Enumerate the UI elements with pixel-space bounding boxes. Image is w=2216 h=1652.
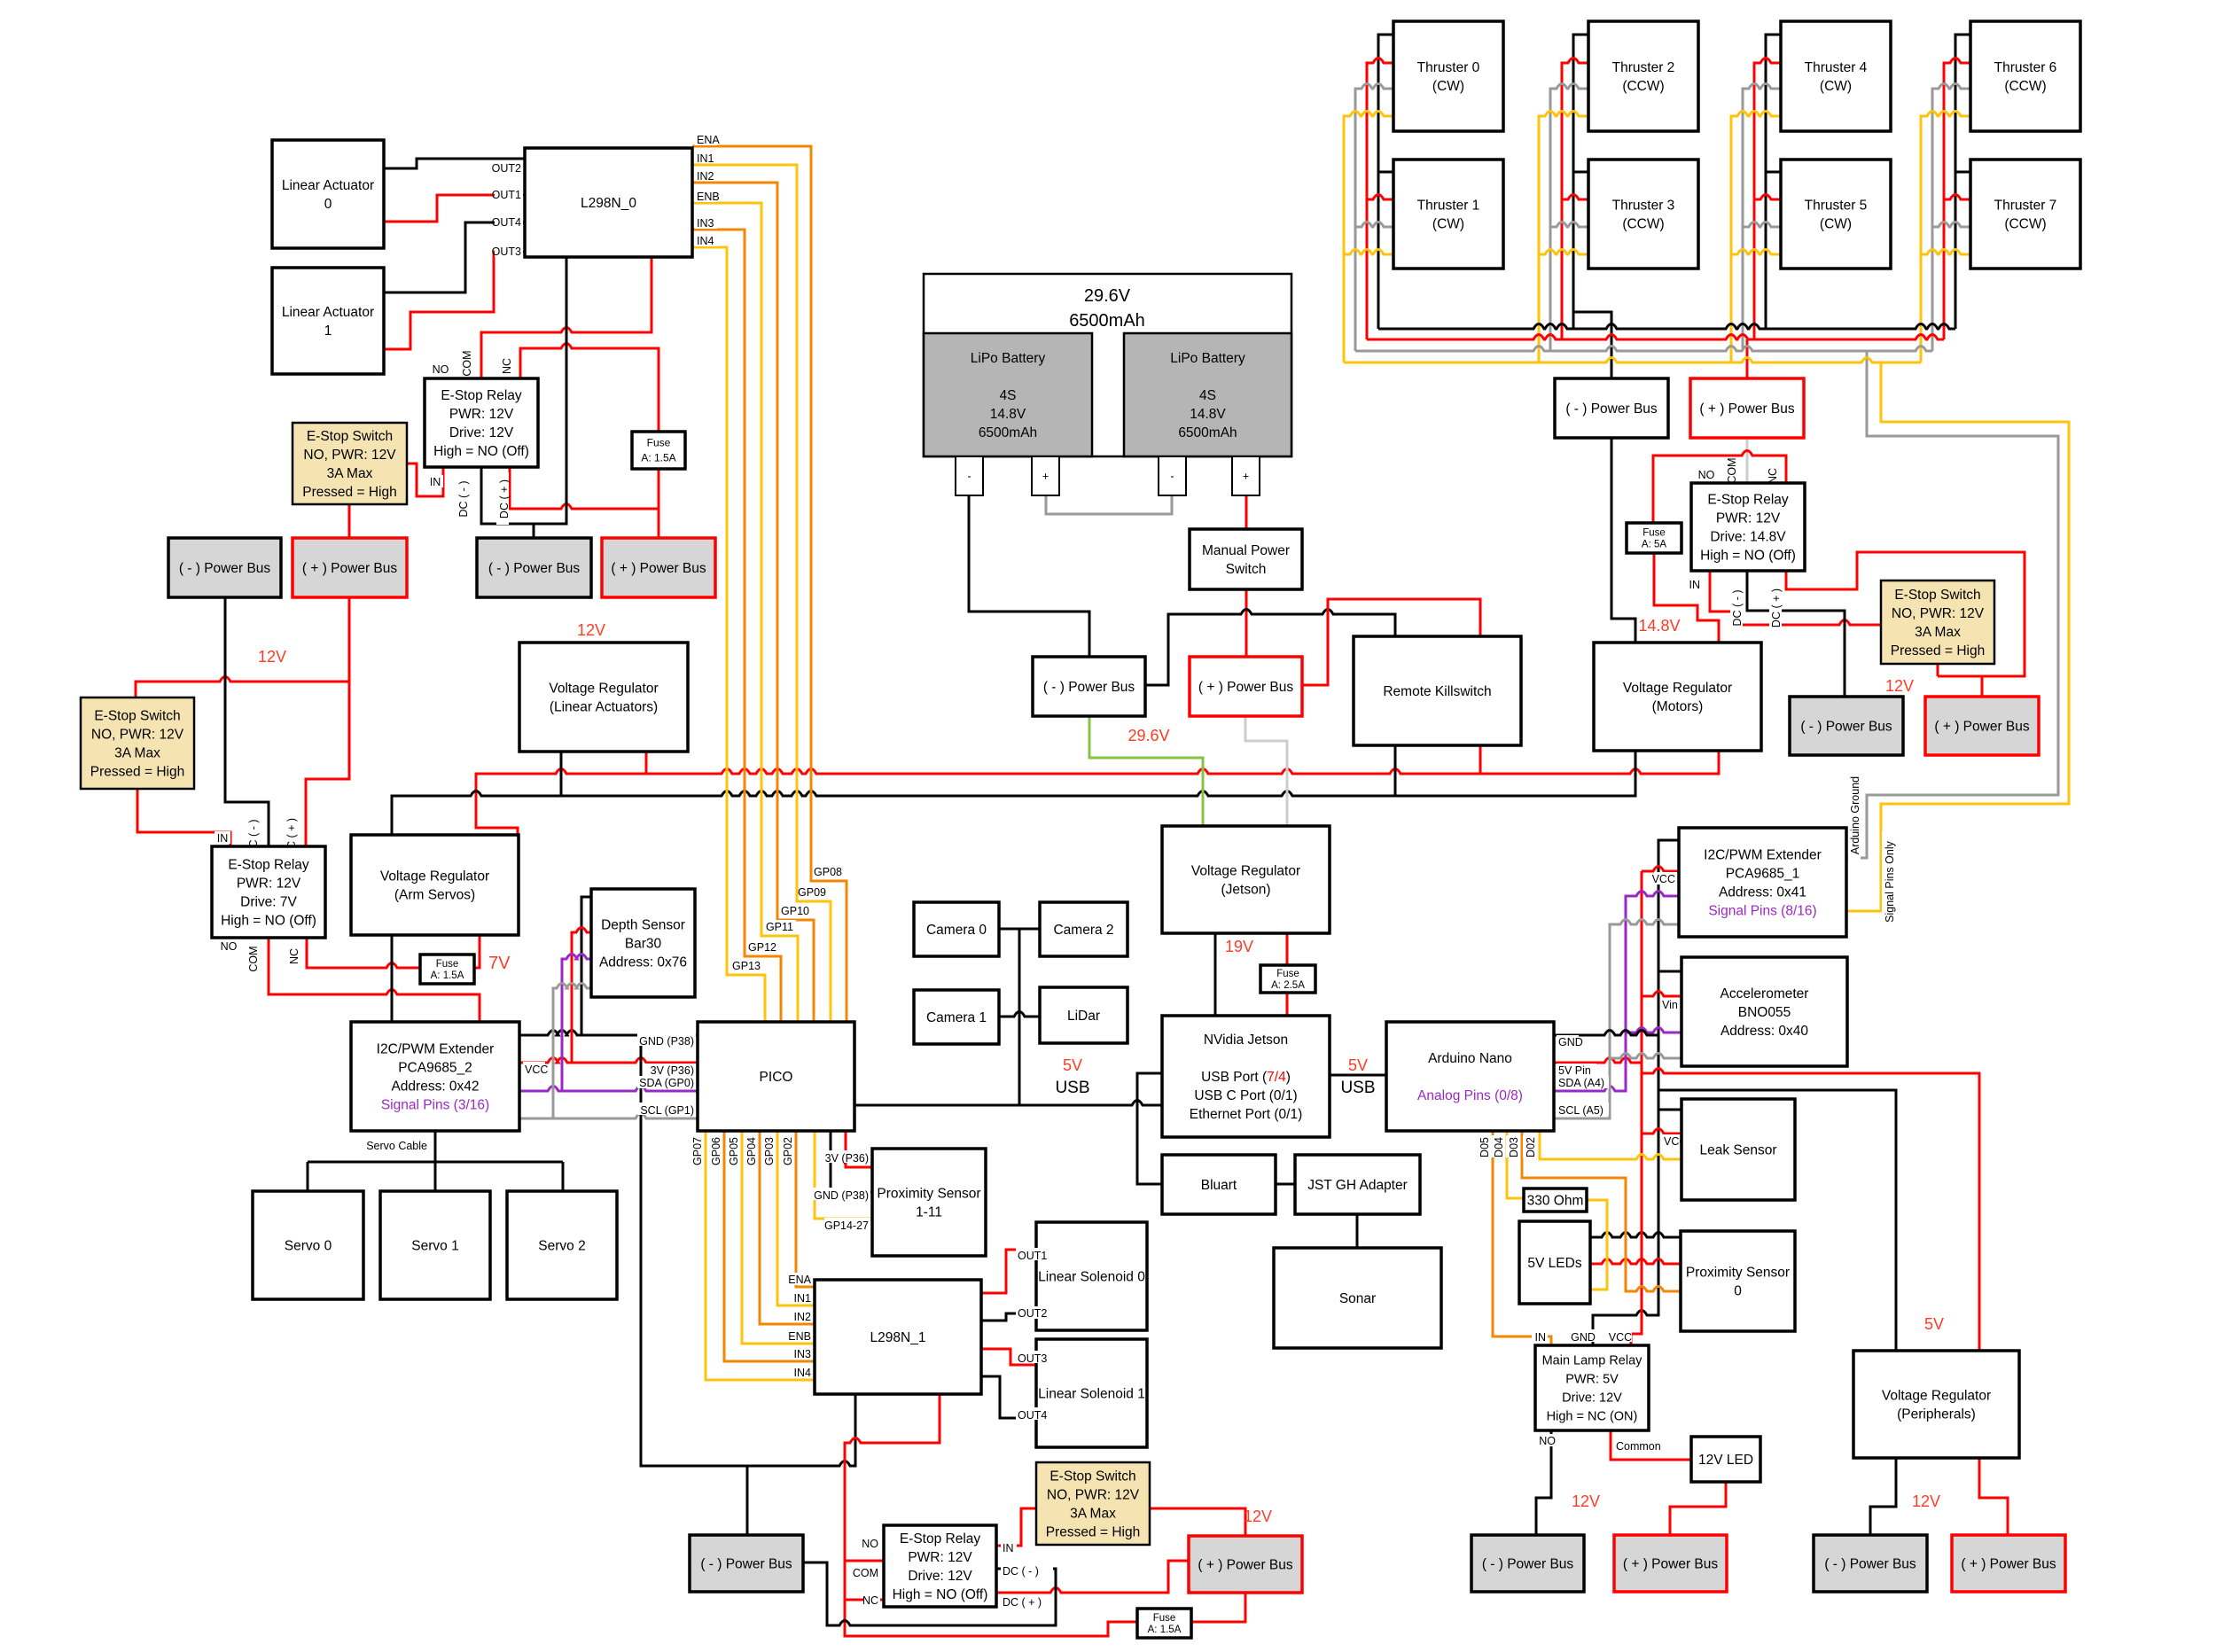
svg-text:Proximity Sensor: Proximity Sensor [1686, 1265, 1790, 1280]
svg-text:Drive: 12V: Drive: 12V [1562, 1391, 1622, 1406]
svg-text:PWR: 12V: PWR: 12V [237, 876, 301, 891]
svg-text:7V: 7V [488, 954, 511, 973]
svg-text:Thruster 7: Thruster 7 [1994, 198, 2057, 213]
svg-text:DC ( - ): DC ( - ) [457, 481, 470, 518]
svg-text:(Motors): (Motors) [1652, 699, 1704, 714]
svg-text:IN4: IN4 [794, 1367, 812, 1379]
svg-text:3V (P36): 3V (P36) [825, 1152, 869, 1165]
svg-text:GP13: GP13 [732, 960, 761, 972]
svg-text:Voltage Regulator: Voltage Regulator [1882, 1388, 1991, 1403]
svg-text:5V: 5V [1348, 1056, 1368, 1074]
svg-text:Sonar: Sonar [1339, 1291, 1376, 1306]
svg-text:IN1: IN1 [697, 152, 714, 165]
svg-text:OUT3: OUT3 [1018, 1352, 1047, 1365]
svg-text:OUT4: OUT4 [1018, 1409, 1047, 1422]
svg-text:E-Stop Relay: E-Stop Relay [441, 388, 522, 403]
svg-text:A: 5A: A: 5A [1642, 540, 1666, 550]
svg-text:Fuse: Fuse [436, 959, 459, 970]
svg-text:Pressed = High: Pressed = High [302, 485, 396, 500]
svg-text:GP14-27: GP14-27 [824, 1220, 869, 1232]
svg-text:Voltage Regulator: Voltage Regulator [1191, 863, 1300, 878]
svg-text:Drive: 7V: Drive: 7V [240, 894, 297, 909]
svg-text:Signal Pins (8/16): Signal Pins (8/16) [1708, 903, 1816, 918]
svg-text:Fuse: Fuse [1153, 1613, 1176, 1624]
svg-text:NO: NO [1539, 1435, 1556, 1447]
svg-text:(CCW): (CCW) [1622, 79, 1664, 94]
svg-text:( - ) Power Bus: ( - ) Power Bus [1824, 1556, 1916, 1571]
svg-text:( - ) Power Bus: ( - ) Power Bus [700, 1556, 792, 1571]
svg-text:GP03: GP03 [763, 1137, 776, 1165]
svg-text:NO: NO [433, 363, 449, 376]
svg-text:NO, PWR: 12V: NO, PWR: 12V [1892, 606, 1985, 621]
svg-text:( - ) Power Bus: ( - ) Power Bus [1565, 401, 1658, 417]
svg-text:DC ( + ): DC ( + ) [498, 479, 511, 518]
svg-text:+: + [1243, 470, 1249, 482]
svg-text:Address: 0x76: Address: 0x76 [599, 955, 687, 970]
svg-text:12V: 12V [258, 648, 286, 666]
svg-text:Voltage Regulator: Voltage Regulator [549, 681, 658, 696]
svg-text:IN1: IN1 [794, 1292, 812, 1305]
svg-text:PWR: 12V: PWR: 12V [908, 1550, 972, 1565]
svg-text:Thruster 0: Thruster 0 [1417, 60, 1480, 75]
svg-text:Vin: Vin [1662, 999, 1678, 1011]
svg-text:COM: COM [1726, 457, 1738, 483]
svg-text:USB: USB [1055, 1079, 1089, 1097]
svg-text:PICO: PICO [760, 1070, 793, 1085]
svg-text:PCA9685_2: PCA9685_2 [398, 1060, 472, 1075]
svg-text:(Arm Servos): (Arm Servos) [394, 887, 475, 902]
svg-text:Servo 1: Servo 1 [411, 1238, 458, 1253]
svg-text:SDA (GP0): SDA (GP0) [639, 1077, 694, 1089]
svg-text:High = NC (ON): High = NC (ON) [1547, 1410, 1638, 1424]
svg-text:( - ) Power Bus: ( - ) Power Bus [488, 561, 581, 576]
svg-text:JST GH Adapter: JST GH Adapter [1307, 1178, 1408, 1193]
svg-text:GP10: GP10 [781, 905, 809, 917]
svg-text:A: 1.5A: A: 1.5A [1148, 1625, 1182, 1635]
svg-text:Fuse: Fuse [647, 437, 671, 449]
svg-text:Servo 0: Servo 0 [285, 1238, 332, 1253]
svg-text:GP08: GP08 [814, 866, 842, 878]
svg-text:Pressed = High: Pressed = High [1046, 1524, 1140, 1539]
svg-text:SDA (A4): SDA (A4) [1558, 1077, 1604, 1089]
svg-text:E-Stop Switch: E-Stop Switch [1894, 588, 1980, 603]
svg-text:29.6V: 29.6V [1084, 286, 1131, 306]
svg-text:NO, PWR: 12V: NO, PWR: 12V [91, 727, 184, 742]
svg-text:IN2: IN2 [697, 170, 714, 183]
svg-text:Leak Sensor: Leak Sensor [1699, 1142, 1776, 1157]
svg-text:(CW): (CW) [1820, 216, 1852, 231]
svg-text:(CCW): (CCW) [2004, 79, 2046, 94]
svg-text:14.8V: 14.8V [1190, 407, 1226, 422]
svg-text:Arduino Ground: Arduino Ground [1849, 776, 1861, 854]
svg-text:1-11: 1-11 [916, 1204, 942, 1220]
svg-text:LiPo Battery: LiPo Battery [971, 351, 1046, 366]
svg-text:0: 0 [324, 197, 332, 212]
svg-text:NC: NC [862, 1594, 878, 1607]
svg-text:Linear Solenoid 1: Linear Solenoid 1 [1038, 1386, 1145, 1401]
svg-text:Drive: 12V: Drive: 12V [449, 425, 514, 440]
svg-text:OUT4: OUT4 [492, 216, 521, 229]
svg-text:( + ) Power Bus: ( + ) Power Bus [1961, 1556, 2056, 1571]
svg-text:Address: 0x41: Address: 0x41 [1719, 884, 1806, 900]
svg-text:Switch: Switch [1226, 562, 1267, 577]
svg-text:Proximity Sensor: Proximity Sensor [877, 1186, 980, 1201]
svg-text:E-Stop Relay: E-Stop Relay [1707, 492, 1789, 507]
svg-text:Camera 1: Camera 1 [926, 1010, 987, 1025]
svg-text:Arduino Nano: Arduino Nano [1428, 1051, 1512, 1066]
svg-text:LiPo Battery: LiPo Battery [1170, 351, 1245, 366]
svg-text:19V: 19V [1225, 938, 1253, 955]
svg-text:E-Stop Switch: E-Stop Switch [94, 708, 180, 723]
svg-text:ENB: ENB [788, 1330, 811, 1343]
svg-text:PWR: 12V: PWR: 12V [449, 407, 514, 422]
svg-text:VCC: VCC [525, 1064, 548, 1076]
svg-text:(CW): (CW) [1432, 79, 1464, 94]
svg-text:Drive: 12V: Drive: 12V [908, 1569, 972, 1584]
svg-text:SCL (GP1): SCL (GP1) [640, 1104, 694, 1117]
svg-text:( + ) Power Bus: ( + ) Power Bus [1198, 680, 1293, 695]
svg-text:NC: NC [288, 948, 300, 964]
svg-text:( - ) Power Bus: ( - ) Power Bus [1482, 1556, 1574, 1571]
svg-text:14.8V: 14.8V [1638, 617, 1680, 635]
svg-text:VCC: VCC [1652, 873, 1675, 885]
svg-text:Bluart: Bluart [1201, 1178, 1237, 1193]
svg-text:3V (P36): 3V (P36) [651, 1064, 694, 1077]
svg-text:4S: 4S [1199, 388, 1216, 403]
svg-text:IN3: IN3 [697, 217, 714, 230]
svg-text:IN: IN [1689, 579, 1701, 591]
svg-text:3A Max: 3A Max [1070, 1506, 1116, 1521]
svg-text:PWR: 12V: PWR: 12V [1716, 510, 1781, 526]
svg-text:NO: NO [221, 940, 238, 953]
svg-text:GP04: GP04 [745, 1137, 758, 1165]
svg-text:Camera 2: Camera 2 [1053, 923, 1113, 938]
svg-text:PCA9685_1: PCA9685_1 [1726, 866, 1800, 881]
svg-text:Drive: 14.8V: Drive: 14.8V [1710, 529, 1786, 544]
svg-text:ENB: ENB [697, 191, 720, 203]
svg-text:12V: 12V [1912, 1492, 1940, 1510]
svg-text:L298N_0: L298N_0 [581, 196, 636, 211]
svg-text:(Peripherals): (Peripherals) [1897, 1407, 1976, 1422]
svg-text:ENA: ENA [697, 134, 720, 146]
svg-text:(Jetson): (Jetson) [1221, 882, 1271, 897]
svg-text:COM: COM [853, 1567, 878, 1579]
svg-text:Address: 0x40: Address: 0x40 [1721, 1024, 1808, 1039]
svg-text:0: 0 [1734, 1283, 1742, 1298]
svg-text:330 Ohm: 330 Ohm [1527, 1193, 1584, 1208]
svg-text:5V: 5V [1063, 1056, 1082, 1074]
svg-text:IN: IN [1535, 1331, 1547, 1344]
svg-text:Pressed = High: Pressed = High [90, 764, 184, 779]
svg-text:-: - [1170, 470, 1174, 482]
svg-text:USB C Port (0/1): USB C Port (0/1) [1194, 1088, 1297, 1103]
svg-text:6500mAh: 6500mAh [979, 425, 1037, 440]
svg-text:GP02: GP02 [782, 1137, 794, 1165]
svg-text:D02: D02 [1525, 1137, 1537, 1157]
svg-text:Thruster 2: Thruster 2 [1612, 60, 1675, 75]
svg-text:Linear Actuator: Linear Actuator [282, 178, 374, 193]
svg-text:( - ) Power Bus: ( - ) Power Bus [179, 561, 271, 576]
svg-text:GP09: GP09 [798, 886, 826, 899]
svg-text:NVidia Jetson: NVidia Jetson [1204, 1032, 1288, 1048]
svg-text:Common: Common [1616, 1440, 1661, 1453]
svg-text:OUT2: OUT2 [1018, 1307, 1047, 1320]
svg-text:GP11: GP11 [766, 921, 793, 933]
svg-text:LiDar: LiDar [1067, 1009, 1100, 1024]
svg-text:3A Max: 3A Max [1915, 625, 1961, 640]
svg-text:12V: 12V [1244, 1508, 1272, 1525]
svg-text:A: 2.5A: A: 2.5A [1271, 980, 1305, 991]
svg-text:Pressed = High: Pressed = High [1891, 643, 1985, 658]
svg-text:DC ( + ): DC ( + ) [1770, 588, 1783, 627]
svg-text:12V: 12V [577, 621, 605, 639]
svg-text:D03: D03 [1508, 1137, 1520, 1157]
svg-text:GND (P38): GND (P38) [639, 1035, 694, 1048]
svg-text:E-Stop Relay: E-Stop Relay [228, 857, 309, 872]
svg-text:( - ) Power Bus: ( - ) Power Bus [1043, 680, 1135, 695]
svg-text:Servo Cable: Servo Cable [366, 1140, 427, 1152]
svg-text:Accelerometer: Accelerometer [1721, 986, 1809, 1001]
svg-text:6500mAh: 6500mAh [1178, 425, 1237, 440]
svg-text:Analog Pins (0/8): Analog Pins (0/8) [1417, 1088, 1523, 1103]
svg-text:IN: IN [1003, 1542, 1014, 1555]
svg-text:Bar30: Bar30 [625, 936, 662, 951]
svg-text:NO: NO [862, 1538, 878, 1550]
svg-text:Manual Power: Manual Power [1202, 543, 1290, 558]
svg-text:Thruster 3: Thruster 3 [1612, 198, 1675, 213]
svg-text:3A Max: 3A Max [114, 745, 160, 760]
svg-text:DC ( - ): DC ( - ) [1003, 1565, 1039, 1578]
svg-text:A: 1.5A: A: 1.5A [431, 970, 464, 981]
svg-text:Linear Solenoid 0: Linear Solenoid 0 [1038, 1269, 1145, 1284]
svg-text:( - ) Power Bus: ( - ) Power Bus [1800, 719, 1892, 734]
svg-text:OUT2: OUT2 [492, 162, 521, 175]
svg-text:GP06: GP06 [710, 1137, 722, 1165]
svg-text:I2C/PWM Extender: I2C/PWM Extender [377, 1041, 495, 1056]
svg-text:5V Pin: 5V Pin [1558, 1064, 1591, 1077]
svg-text:12V: 12V [1572, 1492, 1600, 1510]
svg-text:IN2: IN2 [794, 1311, 812, 1323]
svg-text:Remote Killswitch: Remote Killswitch [1383, 684, 1491, 699]
svg-text:L298N_1: L298N_1 [870, 1330, 926, 1345]
svg-text:Signal Pins Only: Signal Pins Only [1884, 840, 1896, 922]
svg-text:E-Stop Switch: E-Stop Switch [1049, 1469, 1135, 1484]
svg-text:Voltage Regulator: Voltage Regulator [380, 869, 489, 884]
svg-text:ENA: ENA [788, 1274, 811, 1286]
svg-text:USB: USB [1340, 1079, 1375, 1097]
svg-text:USB Port (7/4): USB Port (7/4) [1201, 1070, 1291, 1085]
svg-text:High = NO (Off): High = NO (Off) [221, 913, 316, 928]
svg-text:Linear Actuator: Linear Actuator [282, 305, 374, 320]
svg-text:E-Stop Relay: E-Stop Relay [900, 1531, 981, 1547]
svg-text:Fuse: Fuse [1642, 528, 1666, 539]
svg-text:(CW): (CW) [1432, 216, 1464, 231]
svg-text:(CCW): (CCW) [2004, 216, 2046, 231]
svg-text:GND: GND [1558, 1036, 1583, 1048]
svg-text:NO: NO [1698, 469, 1715, 481]
svg-text:Address: 0x42: Address: 0x42 [391, 1079, 479, 1094]
svg-text:OUT1: OUT1 [492, 189, 521, 201]
svg-text:IN3: IN3 [794, 1348, 812, 1360]
svg-text:Thruster 6: Thruster 6 [1994, 60, 2057, 75]
svg-text:( + ) Power Bus: ( + ) Power Bus [302, 561, 397, 576]
svg-text:Thruster 4: Thruster 4 [1805, 60, 1868, 75]
svg-text:GP07: GP07 [691, 1137, 704, 1165]
svg-text:DC ( + ): DC ( + ) [1003, 1596, 1042, 1609]
svg-text:Servo 2: Servo 2 [538, 1238, 585, 1253]
svg-text:NO, PWR: 12V: NO, PWR: 12V [303, 448, 396, 463]
svg-text:Signal Pins (3/16): Signal Pins (3/16) [381, 1097, 489, 1112]
svg-text:( + ) Power Bus: ( + ) Power Bus [1198, 1557, 1292, 1572]
svg-text:5V LEDs: 5V LEDs [1527, 1256, 1581, 1271]
svg-text:PWR: 5V: PWR: 5V [1565, 1373, 1619, 1387]
svg-text:GP12: GP12 [748, 941, 776, 954]
svg-text:OUT3: OUT3 [492, 245, 521, 258]
svg-text:( + ) Power Bus: ( + ) Power Bus [611, 561, 706, 576]
svg-text:IN4: IN4 [697, 235, 714, 247]
svg-text:D05: D05 [1479, 1137, 1491, 1157]
svg-text:Camera 0: Camera 0 [926, 923, 987, 938]
svg-text:A: 1.5A: A: 1.5A [641, 452, 675, 464]
svg-text:COM: COM [247, 946, 260, 971]
svg-text:(Linear Actuators): (Linear Actuators) [550, 699, 658, 714]
svg-text:1: 1 [324, 323, 332, 339]
svg-text:GND: GND [1571, 1331, 1596, 1344]
svg-text:5V: 5V [1924, 1315, 1944, 1333]
svg-text:BNO055: BNO055 [1738, 1005, 1791, 1020]
svg-text:Fuse: Fuse [1276, 969, 1299, 979]
svg-text:High = NO (Off): High = NO (Off) [433, 444, 529, 459]
svg-text:Thruster 5: Thruster 5 [1805, 198, 1868, 213]
svg-text:E-Stop Switch: E-Stop Switch [307, 429, 393, 444]
svg-text:COM: COM [461, 350, 473, 376]
svg-text:Voltage Regulator: Voltage Regulator [1623, 681, 1732, 696]
svg-text:Main Lamp Relay: Main Lamp Relay [1542, 1354, 1643, 1368]
svg-text:High = NO (Off): High = NO (Off) [1700, 548, 1796, 563]
svg-text:GND (P38): GND (P38) [814, 1189, 869, 1202]
svg-text:I2C/PWM Extender: I2C/PWM Extender [1704, 847, 1822, 862]
svg-text:DC ( - ): DC ( - ) [1731, 590, 1744, 627]
svg-text:( + ) Power Bus: ( + ) Power Bus [1699, 401, 1794, 417]
svg-text:Ethernet Port (0/1): Ethernet Port (0/1) [1190, 1107, 1303, 1122]
svg-text:Thruster 1: Thruster 1 [1417, 198, 1480, 213]
svg-text:12V LED: 12V LED [1698, 1453, 1753, 1468]
svg-text:+: + [1042, 470, 1049, 482]
svg-text:GP05: GP05 [728, 1137, 740, 1165]
svg-text:IN: IN [430, 476, 441, 488]
svg-text:12V: 12V [1885, 677, 1914, 695]
svg-text:3A Max: 3A Max [327, 466, 373, 481]
svg-text:(CCW): (CCW) [1622, 216, 1664, 231]
svg-text:14.8V: 14.8V [990, 407, 1026, 422]
svg-text:6500mAh: 6500mAh [1069, 311, 1145, 331]
svg-text:( + ) Power Bus: ( + ) Power Bus [1934, 719, 2029, 734]
svg-text:D04: D04 [1493, 1137, 1505, 1157]
svg-text:IN: IN [217, 832, 229, 845]
svg-text:4S: 4S [1000, 388, 1017, 403]
svg-text:( + ) Power Bus: ( + ) Power Bus [1623, 1556, 1718, 1571]
svg-text:NO, PWR: 12V: NO, PWR: 12V [1047, 1487, 1140, 1502]
svg-text:OUT1: OUT1 [1018, 1250, 1047, 1262]
svg-text:29.6V: 29.6V [1128, 727, 1169, 744]
svg-text:VCC: VCC [1609, 1331, 1632, 1344]
svg-text:NC: NC [501, 358, 513, 374]
svg-text:Depth Sensor: Depth Sensor [601, 917, 685, 932]
svg-text:SCL (A5): SCL (A5) [1558, 1104, 1603, 1117]
svg-text:(CW): (CW) [1820, 79, 1852, 94]
svg-text:High = NO (Off): High = NO (Off) [893, 1587, 988, 1602]
svg-text:-: - [967, 470, 971, 482]
